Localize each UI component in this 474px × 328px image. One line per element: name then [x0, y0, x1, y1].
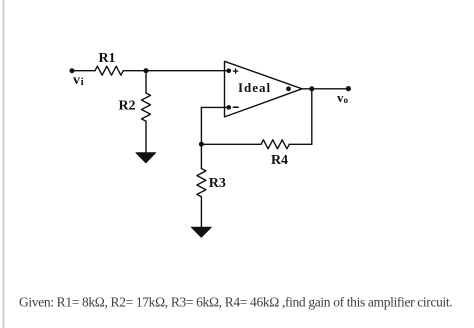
op-amp U1 - input pin dot — [227, 105, 232, 110]
op-amp U1 triangle — [225, 61, 303, 117]
ground (below R2) — [136, 153, 156, 163]
node vi terminal — [70, 68, 75, 73]
svg-text:Given: R1= 8kΩ, R2= 17kΩ, R3=: Given: R1= 8kΩ, R2= 17kΩ, R3= 6kΩ, R4= 4… — [19, 295, 452, 310]
wire node B to R3 — [200, 144, 202, 168]
op-amp U1 - sign — [233, 106, 238, 108]
resistor R1 — [95, 66, 123, 75]
op-amp U1 + sign — [233, 69, 237, 73]
wire R3 to ground — [200, 197, 202, 227]
svg-text:R3: R3 — [209, 176, 226, 191]
svg-text:R4: R4 — [271, 153, 288, 168]
svg-text:Ideal: Ideal — [238, 80, 271, 95]
node C junction (output/feedback) — [309, 86, 314, 91]
ground (below R3) — [191, 227, 211, 237]
node B junction (-/R3/R4) — [199, 142, 204, 147]
op-amp U1 + input pin dot — [227, 69, 232, 74]
node vo terminal — [346, 86, 351, 91]
wire feedback vertical from node C — [311, 89, 313, 145]
wire R1 to op-amp + input — [123, 70, 229, 72]
resistor R4 — [261, 140, 289, 149]
wire - input to corner — [201, 106, 228, 108]
wire feedback to R4 — [289, 143, 312, 145]
wire node A to R2 — [145, 71, 147, 93]
op-amp U1 output pin dot — [286, 86, 291, 91]
wire op-amp output to vo — [302, 88, 348, 90]
svg-text:R1: R1 — [98, 51, 115, 66]
svg-text:R2: R2 — [118, 99, 135, 114]
resistor R2 — [142, 93, 151, 121]
wire corner down to node B — [200, 107, 202, 144]
node A junction (R1/R2/+) — [144, 68, 149, 73]
resistor R3 — [197, 169, 206, 197]
wire R2 to ground — [145, 121, 147, 152]
wire R4 to node B — [201, 143, 261, 145]
wire vi to R1 — [72, 70, 95, 72]
